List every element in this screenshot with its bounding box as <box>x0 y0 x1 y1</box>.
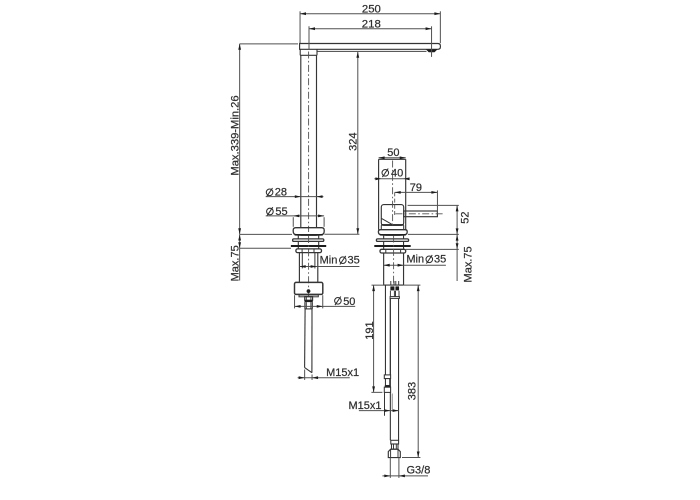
svg-text:Max.75: Max.75 <box>462 246 474 282</box>
svg-text:Min: Min <box>406 253 424 265</box>
mounting nut <box>296 249 322 253</box>
svg-text:218: 218 <box>362 19 381 31</box>
side escutcheon base <box>378 230 407 235</box>
G3/8 nut <box>388 449 400 457</box>
svg-text:Max.339-Min.26: Max.339-Min.26 <box>230 95 242 175</box>
outlet neck <box>305 297 313 301</box>
svg-text:79: 79 <box>410 182 422 194</box>
svg-text:191: 191 <box>364 321 376 339</box>
extension lines M15x1 left <box>304 370 306 380</box>
dimension Max.339-Min.26 (height range) <box>239 44 241 235</box>
outlet hose with beveled end M15x1 <box>304 309 307 368</box>
outlet dark band <box>305 300 313 302</box>
extension line deck underside right <box>406 248 459 250</box>
svg-text:52: 52 <box>460 211 472 223</box>
svg-text:35: 35 <box>348 254 360 266</box>
valve connection block O50 <box>295 282 323 294</box>
body bottom dark edge <box>381 224 403 226</box>
dimension O55 label <box>267 207 274 216</box>
washer plate <box>293 239 324 242</box>
svg-text:50: 50 <box>387 147 399 159</box>
aerator (black wedge under spout tip) <box>426 49 438 52</box>
side mounting nut <box>380 249 406 253</box>
joystick lever bar <box>404 211 438 217</box>
pipe centerline <box>308 52 310 233</box>
shank centerline <box>308 236 310 296</box>
extension lines O55 <box>292 217 294 227</box>
dimension M15x1 right leader <box>359 410 399 412</box>
extension line long hose end <box>402 457 420 459</box>
dimension O50 line and arrows <box>295 305 356 307</box>
extension line deck underside left <box>240 247 291 249</box>
long hose collar <box>392 444 399 449</box>
extension lines G3/8 <box>389 458 391 478</box>
side threaded shank <box>383 253 385 285</box>
dimension 191 (short hose) <box>373 285 375 392</box>
short hose connector M15x1 <box>384 375 390 379</box>
extension lines O50 <box>294 295 296 308</box>
shank upper segments through washer stack <box>297 235 299 239</box>
svg-text:383: 383 <box>406 382 418 400</box>
dimension Max.75 right <box>456 234 458 281</box>
extension lines 79 <box>394 192 396 217</box>
svg-text:35: 35 <box>434 253 446 265</box>
dimension 250 (spout reach) <box>300 13 440 15</box>
dimension Min O35 left line <box>300 266 360 268</box>
dimension O28 line and arrows <box>266 196 324 198</box>
dimension M15x1 left line and arrows <box>298 377 350 379</box>
cartridge housing inner body <box>381 205 403 226</box>
dimension 383 (long hose) <box>417 285 419 457</box>
spout underside second edge line <box>317 50 426 52</box>
dimension 324 (spout underside to deck) <box>357 52 359 235</box>
spout bar (horizontal outlet arm) <box>300 44 441 50</box>
extension line deck level to 324 dim <box>324 233 359 235</box>
short hose to M15x1 <box>384 285 386 375</box>
side washer plate <box>376 239 408 242</box>
dimension 50 (body depth) <box>379 157 406 159</box>
lever pivot diagonal inside body <box>382 218 394 225</box>
svg-text:40: 40 <box>391 168 403 180</box>
hose crimp connectors (dark) <box>390 286 394 290</box>
dimension O55 line and arrows <box>266 215 324 217</box>
extension lines 52 <box>408 204 459 206</box>
hose necks below crimps <box>389 291 391 297</box>
dimension O40 label <box>382 169 389 178</box>
extension line at spout top level <box>240 43 298 45</box>
extension line short hose end <box>371 391 382 393</box>
dimension 218 <box>309 28 432 30</box>
short hose thread tail M15x1 <box>384 392 386 415</box>
riser pipe O28 <box>300 55 302 227</box>
side shank segments <box>383 235 385 239</box>
dimension Max.75 (deck thickness) <box>239 234 241 280</box>
dimension G3/8 line and arrows <box>382 475 428 477</box>
dimension 79 (lever length) <box>395 191 438 193</box>
long supply hose to G3/8 <box>389 298 391 440</box>
side-view column O50 body <box>378 159 380 229</box>
rubber gasket (thick dark line) <box>291 245 326 247</box>
dimension O40 line and arrows <box>374 178 408 180</box>
column centerline <box>392 161 394 228</box>
plate under block <box>299 295 318 297</box>
hose tails inside shank <box>390 281 392 285</box>
escutcheon base cap O55 <box>293 228 324 235</box>
spout collar below bar <box>299 49 301 55</box>
hose sleeve band <box>390 297 399 299</box>
dimension 52 (lever above deck) <box>456 205 458 234</box>
svg-text:Max.75: Max.75 <box>230 245 242 281</box>
svg-text:324: 324 <box>348 133 360 151</box>
extension lines for 218 <box>308 26 310 49</box>
dimension O28 label <box>266 188 273 197</box>
svg-text:250: 250 <box>362 4 381 16</box>
svg-text:G3/8: G3/8 <box>407 465 431 477</box>
long hose end cap <box>391 440 399 444</box>
threaded shank Min O35 <box>298 253 300 283</box>
extension lines for 250 <box>299 11 301 43</box>
extension line at deck top left <box>240 233 292 235</box>
side shank centerline <box>393 236 395 285</box>
extension line hoses top <box>372 284 385 286</box>
lever centerline <box>395 213 443 215</box>
side rubber gasket <box>374 245 410 247</box>
outlet tube <box>304 302 306 309</box>
dimension Min O35 right line <box>384 264 446 266</box>
svg-text:Min: Min <box>320 254 338 266</box>
dimension O50 label <box>335 297 342 306</box>
